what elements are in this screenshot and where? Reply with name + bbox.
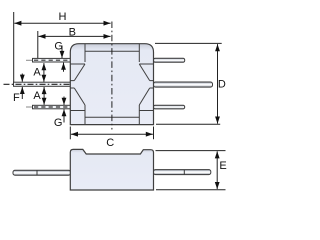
svg-text:F: F [13, 92, 20, 104]
flange line lower-right [139, 110, 153, 112]
lead P6 bottom-right [154, 105, 185, 109]
svg-text:D: D [218, 79, 226, 91]
dimension C [70, 127, 153, 150]
svg-text:A: A [33, 90, 41, 102]
dimension H [14, 11, 111, 82]
dimension B [38, 27, 111, 59]
bobbin core edge left [84, 44, 86, 125]
lead right (side view) [154, 170, 211, 175]
bobbin core edge right [138, 44, 140, 125]
winding taper lower-left [74, 88, 85, 105]
lead left (side view) [13, 170, 71, 175]
flange line lower-left [70, 110, 85, 112]
lead P1 top-left (hatched) [26, 58, 84, 62]
core top bar [85, 50, 139, 52]
flange waist stubs right [150, 81, 154, 88]
body (side view) [70, 149, 153, 190]
winding taper upper-left [74, 64, 85, 81]
winding taper lower-right [139, 88, 149, 105]
dimension G (bottom lead thickness) [54, 97, 64, 129]
flange waist stubs left [70, 81, 74, 88]
svg-text:A: A [33, 67, 41, 79]
svg-text:G: G [54, 40, 63, 52]
dimension A (upper pitch) [33, 63, 43, 82]
lead P5 middle-right [154, 82, 213, 87]
svg-text:E: E [219, 160, 226, 172]
lead P2 middle-left [4, 82, 71, 86]
svg-text:H: H [59, 11, 67, 23]
svg-text:G: G [54, 117, 63, 129]
core bottom bar [85, 116, 139, 118]
body (top view) [70, 44, 153, 125]
flange line upper-left [70, 63, 85, 65]
dimension A (lower pitch) [33, 87, 44, 105]
svg-text:B: B [69, 27, 76, 39]
svg-text:C: C [106, 137, 114, 149]
winding taper upper-right [139, 64, 149, 81]
lead P4 top-right [154, 58, 185, 62]
vertical centerline [111, 22, 113, 130]
dimension F (middle lead thickness) [13, 74, 22, 105]
dimension G (top lead thickness) [54, 40, 63, 71]
dimension E [156, 151, 227, 190]
lead P3 bottom-left (hatched) [26, 105, 84, 109]
flange line upper-right [139, 63, 153, 65]
dimension D [155, 43, 226, 124]
